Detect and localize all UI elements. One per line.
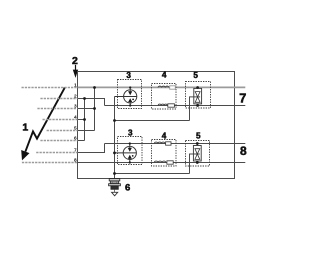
svg-text:4: 4: [162, 71, 167, 80]
wire: earth rail horizontal R1: [115, 120, 190, 122]
junction dots left routing: [83, 86, 96, 121]
svg-text:5: 5: [193, 71, 198, 80]
dashed box 3 (top, coarse protection stage): [118, 80, 142, 109]
arrow 2 (points down at terminal block): [73, 65, 78, 78]
wire: top line A (grey, terminal 1 through to output 7): [78, 86, 246, 88]
earth screw terminal (6): [109, 179, 121, 193]
dashed box 5 (top, fine protection stage): [186, 82, 211, 109]
wire: vertical V2 joining terminals 2,4,6: [84, 99, 86, 141]
svg-text:4: 4: [74, 114, 77, 120]
gas discharge tube top (in box 3): [115, 88, 137, 106]
svg-text:8: 8: [240, 144, 247, 158]
svg-text:2: 2: [74, 93, 77, 99]
svg-text:3: 3: [126, 71, 131, 80]
dashed box 3 (bottom): [118, 137, 143, 165]
stub line 6: [40, 140, 77, 142]
inductor top line A: [158, 86, 169, 87]
svg-text:2: 2: [72, 55, 78, 67]
svg-text:5: 5: [196, 132, 201, 141]
resistor bottom line B: [167, 161, 173, 164]
inductor bottom line B: [154, 161, 166, 162]
junction dots earth rail: [113, 119, 116, 175]
earth arrow below screw: [112, 192, 118, 196]
resistor top line B: [168, 104, 175, 107]
wire: TVS top centre tap to ground: [190, 97, 194, 121]
gas discharge tube bottom (in box 3): [115, 144, 137, 163]
wire: terminal 2 to line B step: [78, 99, 105, 106]
terminal numbers 1-8 on strip: [74, 82, 77, 163]
inductor bottom line A: [154, 142, 165, 143]
svg-text:3: 3: [128, 128, 133, 137]
wire: top line B: [105, 105, 246, 107]
terminal stub cables (grey dashed, left of strip): [22, 88, 78, 163]
svg-text:5: 5: [74, 125, 77, 131]
svg-text:6: 6: [74, 135, 77, 141]
resistor top line A (grey): [170, 86, 176, 89]
wire: earth rail vertical: [114, 97, 116, 179]
resistor bottom line A: [166, 142, 171, 145]
stub line 4: [43, 119, 78, 121]
TVS suppressor bottom (in box 5): [193, 144, 201, 163]
inductor top line B: [158, 104, 167, 105]
wire: vertical V1 joining terminals 1,3,5: [94, 88, 96, 131]
wire: terminal 7 to bottom line A step: [78, 144, 105, 153]
stub line 1: [22, 87, 78, 89]
svg-text:4: 4: [162, 132, 167, 141]
stub line 8: [22, 162, 78, 164]
wire: terminal 5: [78, 130, 95, 132]
junction dots TVS bottom: [196, 142, 199, 164]
wire: terminal 6: [78, 140, 85, 142]
stub line 3: [37, 108, 77, 110]
svg-text:6: 6: [125, 183, 130, 194]
dashed box 4 (bottom): [152, 140, 177, 167]
stub line 2: [40, 98, 77, 100]
wire: bottom line B (terminal 8 straight through): [78, 162, 246, 164]
svg-text:1: 1: [74, 82, 77, 88]
wire: earth rail horizontal R2: [115, 173, 190, 175]
stub line 5: [47, 130, 78, 132]
TVS suppressor top (in box 5): [194, 88, 202, 106]
svg-text:7: 7: [74, 147, 77, 153]
junction dots TVS top: [196, 86, 199, 107]
outer frame: [78, 72, 235, 179]
dashed box 4 (top, decoupling stage): [152, 84, 177, 110]
svg-text:1: 1: [22, 122, 28, 134]
wire: bottom line A: [105, 143, 246, 145]
svg-text:3: 3: [74, 103, 77, 109]
svg-text:8: 8: [74, 157, 77, 163]
svg-text:7: 7: [239, 90, 246, 105]
wire: terminal 3: [78, 108, 95, 110]
stub line 7: [36, 152, 77, 154]
wire: TVS bottom centre tap to ground: [190, 154, 194, 174]
lightning surge arrow (1): [25, 88, 64, 152]
wire: terminal 4: [78, 119, 85, 121]
dashed box 5 (bottom): [186, 141, 210, 167]
